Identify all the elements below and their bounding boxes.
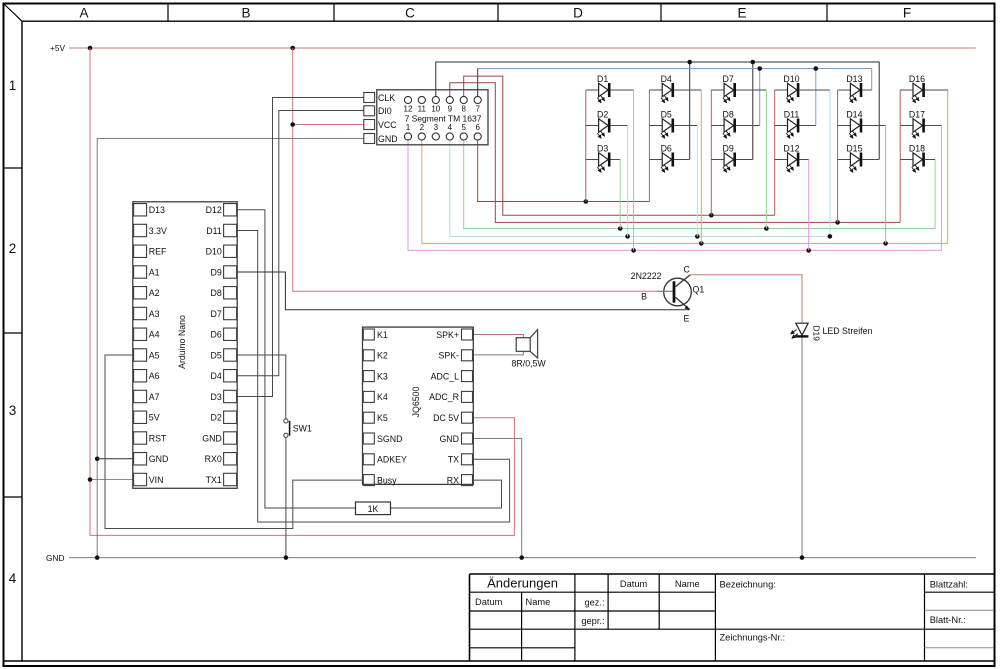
svg-text:5V: 5V <box>149 413 160 423</box>
LED D10 <box>775 74 830 103</box>
wire Arduino D12 to resistor R1 to JQ6500 RX <box>237 210 501 508</box>
svg-text:Änderungen: Änderungen <box>487 576 558 591</box>
switch SW1 <box>284 419 312 438</box>
svg-text:REF: REF <box>149 247 167 257</box>
svg-text:B: B <box>641 292 647 302</box>
LED D18 <box>900 144 935 173</box>
svg-text:A1: A1 <box>149 267 160 277</box>
wire TM1637 pin5 segment net (green) to D3 D7 D18 <box>464 140 935 231</box>
svg-text:DC 5V: DC 5V <box>433 413 459 423</box>
wire Arduino D9 to Q1 emitter <box>237 272 689 310</box>
svg-text:D16: D16 <box>909 74 925 84</box>
svg-text:TX1: TX1 <box>206 475 222 485</box>
LED D2 <box>586 110 628 237</box>
svg-text:Bezeichnung:: Bezeichnung: <box>720 580 776 590</box>
svg-text:D14: D14 <box>846 110 862 120</box>
svg-text:C: C <box>684 265 691 275</box>
svg-text:3: 3 <box>9 403 17 418</box>
LED D16 <box>900 74 948 103</box>
svg-text:VIN: VIN <box>149 475 164 485</box>
wire Arduino A5 to JQ6500 Busy <box>105 355 363 529</box>
svg-text:D4: D4 <box>661 74 672 84</box>
LED D14 <box>838 110 886 244</box>
svg-text:K5: K5 <box>377 413 388 423</box>
svg-text:11: 11 <box>418 105 427 114</box>
wire LED column 1 anode bus <box>585 90 587 202</box>
wire LED column 4 anode bus <box>774 90 776 215</box>
LED D4 <box>649 74 701 243</box>
LED D15 <box>838 144 880 173</box>
wire DI0 to Arduino D4 <box>237 111 364 376</box>
svg-text:E: E <box>684 314 690 324</box>
node GND power rail <box>46 553 976 563</box>
svg-text:ADC_L: ADC_L <box>431 371 459 381</box>
wire TM1637 pin8 grid net to LED columns 3-4 <box>464 76 775 217</box>
LED D9 <box>711 144 753 173</box>
wire Q1 collector to LED strip <box>690 275 802 323</box>
wire Arduino D11 to JQ6500 TX <box>237 231 509 523</box>
LED D13 <box>838 74 872 103</box>
svg-text:GND: GND <box>439 434 459 444</box>
wire JQ6500 SPK- to speaker <box>473 351 523 355</box>
svg-text:D2: D2 <box>597 110 608 120</box>
svg-text:TX: TX <box>448 455 459 465</box>
svg-text:K4: K4 <box>377 392 388 402</box>
svg-text:ADKEY: ADKEY <box>377 455 407 465</box>
wire LED column 2 anode bus <box>648 90 650 202</box>
svg-text:D10: D10 <box>783 74 799 84</box>
transistor Q1 2N2222 <box>631 265 705 324</box>
svg-text:Blatt-Nr.:: Blatt-Nr.: <box>930 615 966 625</box>
LED D6 <box>649 144 689 173</box>
wire TM1637 pin9 grid net to LED columns 5-6 <box>450 83 900 225</box>
svg-text:9: 9 <box>448 105 453 114</box>
svg-text:RX: RX <box>447 475 459 485</box>
svg-text:D11: D11 <box>784 110 800 120</box>
svg-text:D9: D9 <box>722 144 733 154</box>
svg-text:D10: D10 <box>206 247 222 257</box>
LED D8 <box>711 110 759 139</box>
svg-text:A2: A2 <box>149 288 160 298</box>
svg-text:D3: D3 <box>597 144 608 154</box>
wire CLK to Arduino D3 <box>237 98 364 397</box>
LED D11 <box>775 110 816 139</box>
resistor R1 1K <box>356 502 391 515</box>
svg-text:A6: A6 <box>149 371 160 381</box>
LED D1 <box>586 74 634 250</box>
svg-text:8: 8 <box>461 105 466 114</box>
svg-text:Q1: Q1 <box>693 285 705 295</box>
svg-text:5: 5 <box>461 123 466 132</box>
svg-text:F: F <box>903 6 911 21</box>
svg-text:D9: D9 <box>211 267 222 277</box>
wire Arduino D5 to SW1 <box>237 355 286 419</box>
svg-text:D5: D5 <box>661 110 672 120</box>
svg-text:D11: D11 <box>206 226 222 236</box>
svg-text:ADC_R: ADC_R <box>429 392 459 402</box>
wire LED strip cathode to GND rail <box>800 337 805 560</box>
svg-text:SPK+: SPK+ <box>436 330 459 340</box>
svg-text:GND: GND <box>149 454 169 464</box>
title block <box>470 574 995 661</box>
svg-text:D5: D5 <box>211 350 222 360</box>
svg-text:B: B <box>241 6 250 21</box>
svg-text:D6: D6 <box>661 144 672 154</box>
svg-text:K1: K1 <box>377 330 388 340</box>
svg-text:A4: A4 <box>149 330 160 340</box>
svg-text:10: 10 <box>431 105 440 114</box>
svg-text:6: 6 <box>475 123 480 132</box>
wire TM1637 pin2 segment net (orange) to D4 D14 D16 <box>422 90 948 246</box>
LED D12 <box>775 144 809 251</box>
wire TM1637 pin1 segment net (magenta) to D1 D12 D17 <box>408 126 941 253</box>
svg-text:DI0: DI0 <box>378 106 392 116</box>
wire JQ6500 GND to GND rail <box>473 439 524 560</box>
svg-text:GND: GND <box>46 553 64 563</box>
svg-text:gepr.:: gepr.: <box>581 616 604 626</box>
svg-text:JQ6500: JQ6500 <box>411 386 421 417</box>
svg-text:CLK: CLK <box>378 93 395 103</box>
svg-text:D18: D18 <box>909 144 925 154</box>
svg-text:D: D <box>573 6 583 21</box>
svg-text:D4: D4 <box>211 371 222 381</box>
svg-text:GND: GND <box>202 433 222 443</box>
wire TM1637 pin7 segment net (blue) to D8 D11 D13 <box>478 66 872 125</box>
svg-text:GND: GND <box>378 134 398 144</box>
svg-text:D13: D13 <box>846 74 862 84</box>
svg-text:Name: Name <box>675 579 700 589</box>
wire LED column 6 anode bus <box>899 90 901 222</box>
svg-text:7: 7 <box>475 105 480 114</box>
svg-text:Blattzahl:: Blattzahl: <box>930 580 968 590</box>
svg-text:1: 1 <box>9 78 17 93</box>
svg-text:D15: D15 <box>846 144 862 154</box>
svg-text:LED Streifen: LED Streifen <box>823 326 873 336</box>
svg-text:3: 3 <box>434 123 439 132</box>
svg-text:Name: Name <box>526 597 551 607</box>
svg-text:Busy: Busy <box>377 475 397 485</box>
svg-text:D8: D8 <box>722 110 733 120</box>
speaker LS1 8R/0.5W <box>516 330 537 358</box>
svg-text:2: 2 <box>420 123 425 132</box>
wire TM1637 GND down to GND rail <box>95 139 364 560</box>
LED D5 <box>649 110 697 237</box>
svg-text:D1: D1 <box>597 74 608 84</box>
svg-text:K3: K3 <box>377 371 388 381</box>
wire +5V to Arduino VIN and JQ6500 DC5V <box>88 48 515 535</box>
svg-text:D7: D7 <box>211 309 222 319</box>
svg-text:D2: D2 <box>211 413 222 423</box>
wire TM1637 pin6 grid net to LED columns 1-2 <box>478 140 650 204</box>
IC U3 JQ6500 module <box>363 327 474 486</box>
svg-text:4: 4 <box>9 571 17 586</box>
wire TM1637 pin4 segment net (cyan) to D2 D5 D10 <box>450 90 832 239</box>
svg-text:RST: RST <box>149 433 167 443</box>
svg-text:D8: D8 <box>211 288 222 298</box>
svg-text:+5V: +5V <box>50 43 65 53</box>
svg-text:7 Segment TM 1637: 7 Segment TM 1637 <box>405 114 482 124</box>
svg-text:D12: D12 <box>783 144 799 154</box>
svg-text:D19: D19 <box>812 326 822 342</box>
svg-text:D7: D7 <box>722 74 733 84</box>
svg-text:12: 12 <box>404 105 413 114</box>
IC U1 Arduino Nano <box>133 202 237 489</box>
svg-text:D13: D13 <box>149 205 165 215</box>
wire +5V to TM1637 VCC and Q1 base <box>290 48 657 291</box>
svg-text:1K: 1K <box>368 504 379 514</box>
svg-text:3.3V: 3.3V <box>149 226 167 236</box>
LED D17 <box>900 110 941 139</box>
svg-text:Datum: Datum <box>620 579 648 589</box>
svg-text:A5: A5 <box>149 350 160 360</box>
svg-text:1: 1 <box>406 123 411 132</box>
svg-text:Datum: Datum <box>475 597 503 607</box>
svg-text:E: E <box>737 6 746 21</box>
LED D7 <box>711 74 766 229</box>
svg-text:2N2222: 2N2222 <box>631 271 662 281</box>
wire SW1 to GND rail <box>284 437 289 559</box>
svg-text:A3: A3 <box>149 309 160 319</box>
svg-text:A: A <box>79 6 88 21</box>
svg-text:SW1: SW1 <box>293 424 312 434</box>
svg-text:D6: D6 <box>211 330 222 340</box>
svg-text:SGND: SGND <box>377 434 402 444</box>
wire Arduino GND to GND net <box>97 458 133 460</box>
LED D3 <box>586 144 620 229</box>
svg-text:8R/0,5W: 8R/0,5W <box>512 359 547 369</box>
svg-text:Zeichnungs-Nr.:: Zeichnungs-Nr.: <box>720 633 786 643</box>
svg-text:VCC: VCC <box>378 120 397 130</box>
svg-text:4: 4 <box>448 123 453 132</box>
LED D19 LED Streifen <box>791 323 873 341</box>
wire JQ6500 SPK+ to speaker <box>473 335 523 338</box>
wire LED column 3 anode bus <box>710 90 712 215</box>
svg-text:SPK-: SPK- <box>438 351 459 361</box>
svg-text:A7: A7 <box>149 392 160 402</box>
svg-text:K2: K2 <box>377 351 388 361</box>
wire TM1637 pin10 segment net (black) to D6 D9 D15 <box>436 60 879 160</box>
svg-text:D17: D17 <box>909 110 925 120</box>
svg-text:C: C <box>405 6 415 21</box>
svg-text:RX0: RX0 <box>205 454 222 464</box>
svg-text:D3: D3 <box>211 392 222 402</box>
svg-text:gez.:: gez.: <box>584 598 604 608</box>
svg-text:D12: D12 <box>206 205 222 215</box>
wire LED column 5 anode bus <box>837 90 839 222</box>
svg-text:2: 2 <box>9 241 17 256</box>
svg-text:Arduino Nano: Arduino Nano <box>177 315 187 369</box>
node +5V power rail <box>50 43 976 53</box>
IC U2 7 Segment TM 1637 module <box>364 90 488 145</box>
